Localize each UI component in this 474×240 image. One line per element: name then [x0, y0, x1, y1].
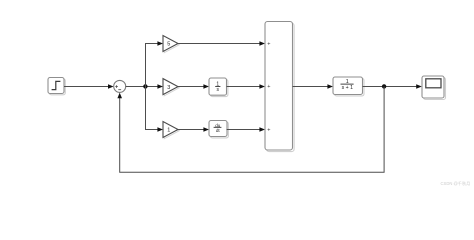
node feedback tap	[382, 84, 386, 88]
derivative du/dt	[209, 121, 228, 138]
wire plant to scope	[363, 84, 422, 89]
plant transfer function 1/(s+1)	[333, 77, 364, 96]
svg-text:5: 5	[167, 42, 170, 48]
wire integrator to adder	[227, 84, 266, 89]
adder sum block	[265, 22, 294, 152]
wire step to sum	[64, 84, 114, 89]
wire gain K3 to derivative	[178, 127, 209, 132]
svg-text:3: 3	[167, 85, 170, 91]
wire gain K2 to integrator	[178, 84, 209, 89]
gain K2 value 3	[163, 79, 179, 96]
integrator 1/s	[209, 78, 228, 97]
wire derivative to adder	[227, 127, 266, 132]
wire gain K1 to adder	[178, 41, 265, 46]
wire branch to gain K1	[145, 41, 163, 46]
wire branch vertical	[145, 44, 147, 130]
svg-text:1: 1	[167, 128, 170, 134]
wire branch to gain K3	[145, 127, 163, 132]
node branch junction	[143, 84, 147, 88]
svg-text:+: +	[267, 41, 270, 47]
wire sum to gain K2	[126, 84, 163, 89]
svg-text:s + 1: s + 1	[342, 85, 354, 91]
scope	[422, 76, 446, 100]
sum junction	[114, 80, 126, 92]
gain K1 value 5	[163, 36, 179, 53]
wire adder to plant	[293, 84, 334, 89]
svg-text:+: +	[267, 84, 270, 90]
step source block	[48, 78, 65, 95]
gain K3 value 1	[163, 122, 179, 139]
svg-text:+: +	[267, 128, 270, 134]
svg-text:CSDN @千秋月: CSDN @千秋月	[441, 180, 471, 187]
feedback wire	[117, 87, 384, 173]
